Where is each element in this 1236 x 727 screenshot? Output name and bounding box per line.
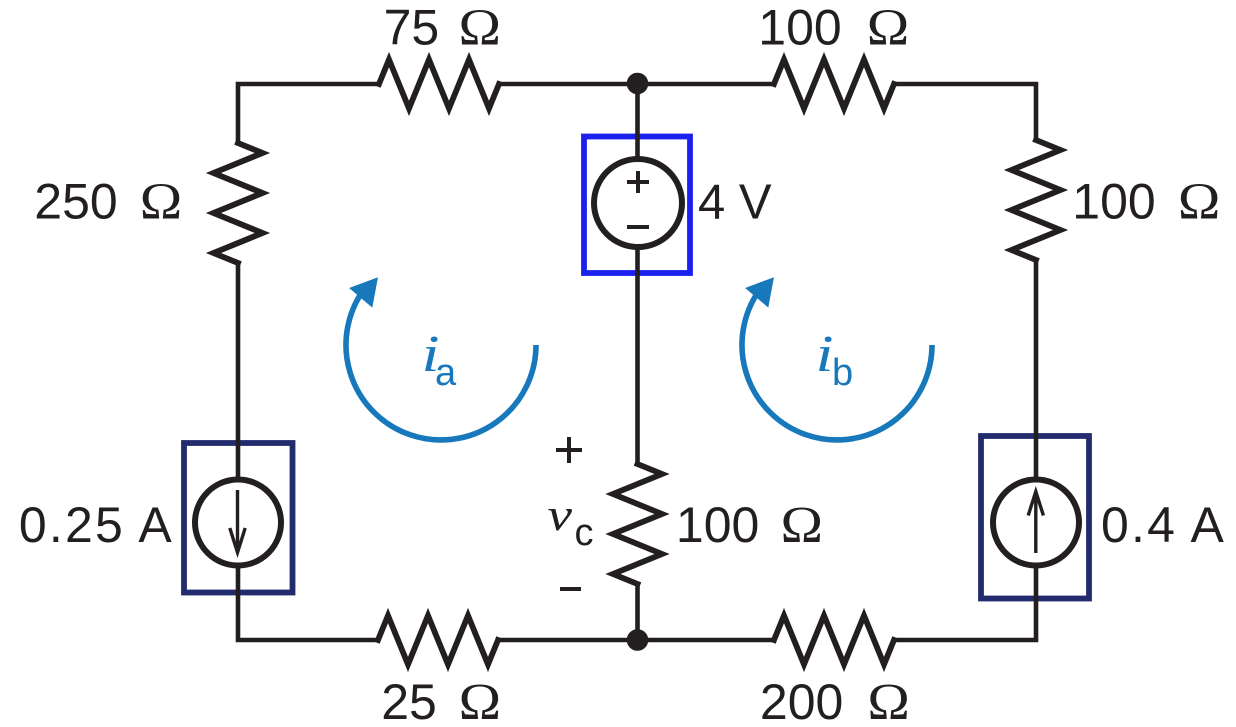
mesh current arrow ib (arc) — [742, 277, 932, 440]
label 100 ohm right — [1072, 172, 1220, 230]
label ib — [816, 325, 854, 394]
svg-text:a: a — [435, 352, 457, 394]
resistor 100 ohm (middle, vc) — [613, 464, 662, 584]
label minus (vc polarity) — [560, 587, 581, 591]
svg-text:Ω: Ω — [867, 672, 910, 727]
resistor 100 ohm (right branch) — [1012, 140, 1061, 260]
label 250 ohm — [34, 172, 182, 230]
svg-text:Ω: Ω — [1178, 172, 1221, 230]
svg-text:200: 200 — [760, 674, 843, 727]
node bottom (junction dot) — [627, 629, 649, 651]
wire top-middle segment — [499, 82, 774, 87]
svg-text:i: i — [816, 325, 834, 382]
voltage source V1 circle — [594, 159, 682, 247]
resistor 250 ohm (left) — [214, 143, 263, 263]
resistor 100 ohm (top-right) — [774, 60, 894, 109]
label vc — [548, 489, 594, 554]
current source I1 arrow (down) — [230, 490, 245, 553]
svg-text:0.4 A: 0.4 A — [1101, 497, 1226, 553]
wire left middle (resistor to current source) — [236, 263, 241, 480]
wire middle (voltage source to resistor vc) — [635, 247, 640, 464]
svg-text:c: c — [575, 512, 594, 554]
svg-text:75: 75 — [384, 0, 440, 56]
svg-text:Ω: Ω — [867, 0, 910, 56]
current source I1 circle — [195, 480, 281, 566]
wire top-right segment — [894, 84, 1036, 140]
svg-text:0.25 A: 0.25 A — [19, 497, 174, 553]
current source I2 arrow (up) — [1028, 492, 1043, 554]
wire middle top (node to voltage source) — [635, 84, 640, 159]
voltage source V1 box (blue) — [584, 137, 690, 274]
svg-text:100: 100 — [758, 0, 841, 56]
wire bottom-middle segment — [498, 638, 774, 643]
svg-text:Ω: Ω — [459, 0, 502, 56]
svg-text:Ω: Ω — [781, 495, 824, 553]
label plus (vc polarity) — [556, 437, 582, 463]
voltage source V1 plus sign — [627, 171, 649, 193]
svg-text:25: 25 — [381, 674, 437, 727]
wire right middle (resistor to current source) — [1034, 260, 1039, 480]
wire bottom-right corner — [894, 566, 1036, 641]
svg-text:Ω: Ω — [140, 172, 183, 230]
wire left bottom (current source to corner) — [238, 566, 378, 641]
wire middle bottom (resistor to node) — [635, 584, 640, 640]
resistor 75 ohm (top-left) — [379, 60, 499, 109]
resistor 200 ohm (bottom-right) — [774, 616, 894, 665]
svg-text:4 V: 4 V — [698, 175, 772, 229]
label 100 ohm top — [758, 0, 909, 56]
voltage source V1 minus sign — [627, 225, 649, 229]
svg-text:Ω: Ω — [459, 672, 502, 727]
current source I2 circle — [993, 480, 1079, 566]
resistor 25 ohm (bottom-left) — [378, 616, 498, 665]
label 100 ohm middle — [676, 495, 823, 553]
mesh current arrow ia (arc) — [346, 277, 536, 440]
wire top-left segment — [238, 84, 379, 143]
node top (junction dot) — [627, 73, 649, 95]
svg-text:250: 250 — [34, 174, 117, 230]
svg-text:100: 100 — [1072, 174, 1155, 230]
label 200 ohm — [760, 672, 910, 727]
label ia — [422, 325, 458, 394]
svg-text:v: v — [548, 489, 573, 540]
label 25 ohm — [381, 672, 501, 727]
current source I2 box (navy) — [981, 436, 1089, 599]
svg-text:b: b — [832, 352, 853, 394]
current source I1 box (navy) — [184, 443, 293, 593]
svg-text:100: 100 — [676, 497, 759, 553]
label 75 ohm — [384, 0, 501, 56]
